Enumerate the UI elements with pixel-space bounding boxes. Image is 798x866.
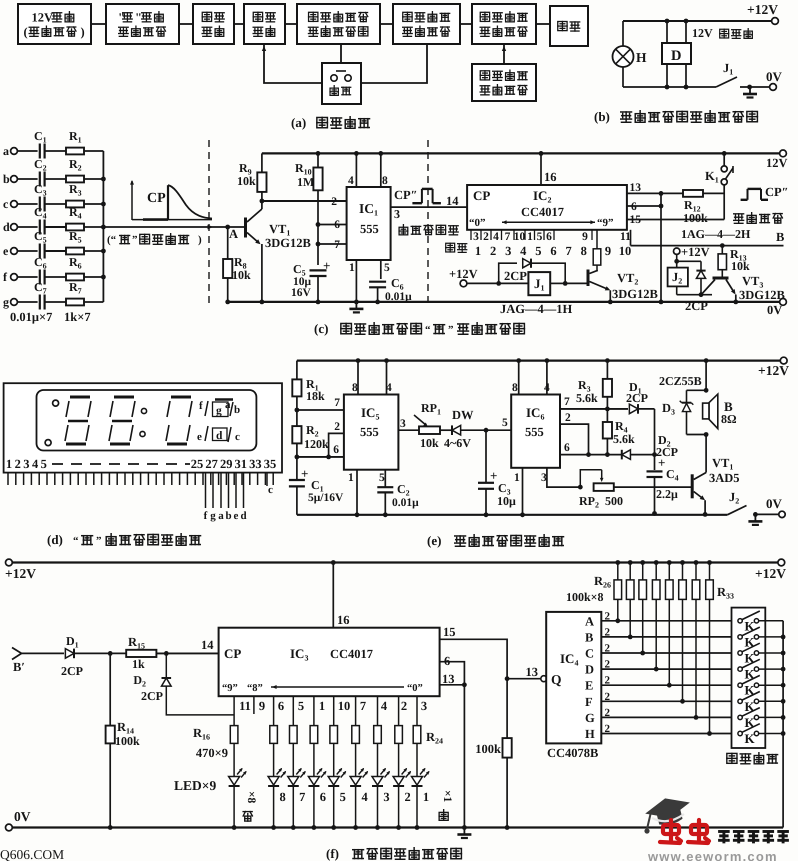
svg-text:4: 4 bbox=[348, 175, 354, 187]
svg-text:7: 7 bbox=[564, 396, 570, 408]
svg-text:7: 7 bbox=[299, 790, 305, 804]
wire IC2 pin16 to rail bbox=[540, 153, 542, 185]
svg-text:B: B bbox=[585, 630, 593, 644]
svg-text:5.6k: 5.6k bbox=[613, 432, 635, 446]
logo eeworm graduation cap bbox=[643, 793, 694, 830]
svg-text:1: 1 bbox=[423, 790, 429, 804]
svg-text:2: 2 bbox=[565, 412, 571, 424]
label green x1 vertical bbox=[441, 790, 453, 803]
resistor R4 5.6k bbox=[606, 409, 608, 422]
svg-text:3: 3 bbox=[23, 457, 29, 471]
bus node (c inputs) bbox=[102, 151, 104, 302]
capacitor C5 bbox=[310, 269, 327, 271]
svg-text:12V: 12V bbox=[692, 26, 713, 40]
svg-text:100k: 100k bbox=[683, 211, 708, 225]
svg-text:2: 2 bbox=[605, 626, 611, 638]
svg-text:(c): (c) bbox=[314, 321, 328, 336]
wire IC2 pin6 bbox=[627, 205, 661, 207]
svg-text:3: 3 bbox=[421, 699, 427, 713]
svg-text:6: 6 bbox=[564, 442, 570, 454]
wire pin6 IC1 bbox=[318, 224, 347, 226]
display pin comb bbox=[7, 473, 9, 485]
block clear-zero switch bbox=[322, 63, 361, 104]
svg-text:2: 2 bbox=[490, 244, 496, 258]
block counting circuit bbox=[244, 4, 285, 44]
resistor 100k pulldown bbox=[506, 679, 508, 738]
svg-text:×1: ×1 bbox=[441, 790, 453, 803]
svg-text:a: a bbox=[225, 399, 231, 411]
digit 2 bbox=[114, 396, 134, 399]
svg-text:9: 9 bbox=[259, 699, 265, 713]
svg-text:10k: 10k bbox=[232, 268, 251, 282]
svg-text:5: 5 bbox=[384, 262, 390, 274]
resistor VT2 base bbox=[596, 230, 598, 249]
svg-text:(d): (d) bbox=[47, 532, 63, 547]
op IC2 CC4017 counter bbox=[467, 185, 627, 230]
svg-text:4: 4 bbox=[381, 699, 388, 713]
0V rail (c) bbox=[227, 301, 783, 303]
wire IC5 pin3 out bbox=[398, 429, 419, 431]
svg-text:0V: 0V bbox=[766, 496, 783, 511]
wire diode junction vertical bbox=[654, 409, 656, 470]
block 12V power supply bbox=[18, 4, 91, 44]
svg-text:H: H bbox=[585, 727, 595, 741]
relay J2 (c) with +12V bbox=[674, 248, 680, 254]
svg-text:+: + bbox=[323, 258, 330, 273]
svg-text:4: 4 bbox=[493, 231, 499, 243]
wire clear to wake bbox=[361, 44, 427, 83]
IC2 bottom pin labels bbox=[470, 230, 472, 240]
resistor R14 100k bbox=[109, 653, 111, 725]
svg-text:3AD5: 3AD5 bbox=[709, 471, 740, 485]
svg-text:CP: CP bbox=[224, 646, 241, 661]
svg-text:+: + bbox=[490, 468, 497, 483]
svg-text:5: 5 bbox=[535, 244, 541, 258]
svg-text:CC4017: CC4017 bbox=[330, 647, 373, 661]
svg-text:16V: 16V bbox=[291, 287, 312, 299]
svg-text:2: 2 bbox=[15, 457, 21, 471]
svg-text:6: 6 bbox=[631, 201, 637, 213]
display long pins fgabed bbox=[205, 473, 207, 508]
svg-text:10k: 10k bbox=[420, 436, 439, 450]
svg-text:4: 4 bbox=[386, 382, 392, 394]
svg-text:100k: 100k bbox=[475, 742, 501, 756]
IC3 bottom pin stubs and labels bbox=[253, 696, 255, 714]
svg-text:120k: 120k bbox=[304, 437, 329, 451]
svg-text:+12V: +12V bbox=[758, 363, 789, 378]
CP waveform graph bbox=[131, 181, 133, 220]
wire pin7 IC1 bbox=[318, 243, 347, 245]
svg-text:2: 2 bbox=[401, 699, 407, 713]
svg-text:2CP: 2CP bbox=[61, 664, 83, 678]
svg-text:2CZ55B: 2CZ55B bbox=[659, 374, 702, 388]
svg-text:2: 2 bbox=[605, 643, 611, 655]
svg-text:H: H bbox=[636, 50, 647, 65]
wire pin2 IC1 bbox=[262, 200, 347, 202]
svg-text:”: ” bbox=[132, 234, 138, 246]
svg-text:31: 31 bbox=[235, 457, 248, 471]
svg-text:7: 7 bbox=[334, 239, 340, 251]
svg-text:555: 555 bbox=[360, 425, 379, 439]
resistor bank R26-R33 100k x8 bbox=[615, 560, 620, 565]
svg-text:(f): (f) bbox=[326, 846, 339, 861]
transistor VT1 3DG12B bbox=[228, 226, 245, 228]
wire IC5 pin8 pin4 to rail bbox=[357, 361, 359, 395]
svg-text:0V: 0V bbox=[14, 809, 31, 824]
capacitor C6 bbox=[380, 260, 382, 279]
block minute-signal detect bbox=[106, 4, 179, 44]
svg-text:7: 7 bbox=[565, 244, 571, 258]
colon bbox=[141, 408, 146, 413]
svg-text:Q606.COM: Q606.COM bbox=[0, 847, 64, 861]
svg-text:CP: CP bbox=[147, 191, 166, 206]
svg-text:“9”: “9” bbox=[597, 217, 614, 229]
IC2 minute labels bbox=[446, 243, 455, 252]
op IC3 CC4017 counter bbox=[219, 628, 440, 697]
svg-text:27: 27 bbox=[205, 457, 218, 471]
svg-text:14: 14 bbox=[446, 194, 459, 208]
svg-text:2: 2 bbox=[605, 659, 611, 671]
svg-text:15: 15 bbox=[443, 625, 456, 639]
resistor R9 bbox=[261, 153, 263, 172]
label CP recording pulse bbox=[741, 199, 748, 201]
svg-text:4: 4 bbox=[32, 457, 39, 471]
svg-text:+12V: +12V bbox=[5, 566, 36, 581]
svg-text:“0”: “0” bbox=[407, 683, 423, 694]
svg-text:CP″: CP″ bbox=[394, 188, 418, 202]
wire to IC6 pin5 bbox=[484, 428, 489, 433]
svg-text:d: d bbox=[3, 220, 10, 234]
svg-text:2CP: 2CP bbox=[626, 391, 648, 405]
svg-text:2: 2 bbox=[605, 723, 611, 735]
svg-text:500: 500 bbox=[605, 494, 623, 508]
svg-text:555: 555 bbox=[525, 425, 544, 439]
resistor R1 18k bbox=[292, 379, 301, 396]
svg-text:0.01μ: 0.01μ bbox=[392, 497, 419, 509]
svg-text:1M: 1M bbox=[297, 175, 314, 189]
svg-text:+12V: +12V bbox=[449, 267, 478, 281]
svg-text:f: f bbox=[204, 510, 208, 522]
svg-text:3: 3 bbox=[541, 472, 547, 484]
svg-text:13: 13 bbox=[526, 665, 539, 679]
svg-text:100k×8: 100k×8 bbox=[566, 590, 604, 604]
svg-text:d: d bbox=[240, 510, 246, 522]
digit 3 bbox=[171, 396, 191, 399]
ground (b) bbox=[749, 87, 751, 94]
wire IC5 pin2-6 bracket bbox=[329, 433, 344, 457]
svg-text:5: 5 bbox=[41, 457, 47, 471]
svg-text:”: ” bbox=[448, 324, 454, 336]
svg-text:c: c bbox=[3, 197, 9, 211]
block doze-count record bbox=[472, 4, 536, 44]
wire vertical pin6-13 to 0V bbox=[660, 193, 662, 302]
svg-text:×8: ×8 bbox=[245, 791, 257, 804]
svg-text:K: K bbox=[745, 731, 756, 746]
diode D1 2CP (f) bbox=[65, 649, 74, 659]
svg-text:“: “ bbox=[425, 324, 431, 336]
svg-text:1: 1 bbox=[6, 457, 12, 471]
svg-text:8: 8 bbox=[512, 382, 518, 394]
svg-text:29: 29 bbox=[220, 457, 233, 471]
svg-text:www.eeworm.com: www.eeworm.com bbox=[647, 849, 778, 861]
+12V rail (b) bbox=[623, 20, 775, 22]
svg-text:2CP: 2CP bbox=[685, 299, 708, 313]
svg-text:1: 1 bbox=[348, 472, 354, 484]
svg-text:“9”: “9” bbox=[222, 683, 238, 694]
wire IC1 pin4 pin8 to rail bbox=[355, 153, 357, 187]
svg-text:13: 13 bbox=[630, 182, 642, 194]
svg-text:9: 9 bbox=[582, 231, 588, 243]
op IC6 555 timer bbox=[511, 395, 560, 468]
display module outer box bbox=[4, 383, 282, 472]
right bus to 0V bbox=[782, 621, 784, 828]
0V rail (f) bbox=[9, 826, 783, 828]
switch J1 bbox=[716, 77, 737, 87]
svg-text:33: 33 bbox=[249, 457, 262, 471]
svg-text:C: C bbox=[585, 647, 594, 661]
switch J2 (e) bbox=[727, 506, 746, 515]
capacitor C2 0.01u bbox=[384, 470, 386, 487]
svg-text:12V: 12V bbox=[766, 156, 788, 170]
svg-text:6: 6 bbox=[320, 790, 326, 804]
svg-text:3DG12B: 3DG12B bbox=[265, 236, 311, 250]
wire IC6 pin2 bracket bbox=[560, 424, 589, 455]
svg-text:a: a bbox=[3, 144, 9, 158]
svg-text:CP″: CP″ bbox=[765, 185, 789, 199]
+12V rail (c) bbox=[262, 152, 783, 154]
svg-text:f: f bbox=[199, 400, 203, 412]
display pin c bbox=[266, 473, 268, 486]
wire IC3 pin13 bbox=[440, 684, 465, 686]
wire IC6 pin1 to 0V bbox=[522, 468, 524, 515]
resistor R12 bbox=[683, 190, 703, 197]
digit 1 bbox=[70, 396, 90, 399]
svg-text:3: 3 bbox=[394, 207, 400, 221]
svg-text:4: 4 bbox=[544, 382, 550, 394]
svg-text:1: 1 bbox=[475, 244, 481, 258]
block display bbox=[550, 6, 588, 46]
svg-text:“0”: “0” bbox=[469, 217, 486, 229]
svg-text:6: 6 bbox=[444, 654, 450, 668]
block preset-time notify bbox=[297, 4, 380, 44]
svg-text:): ) bbox=[81, 25, 85, 39]
wire IC2 pin13 bbox=[627, 192, 683, 194]
svg-text:(b): (b) bbox=[594, 109, 610, 124]
svg-text:B: B bbox=[776, 230, 784, 244]
svg-text:2: 2 bbox=[404, 790, 410, 804]
node A bbox=[225, 225, 230, 230]
svg-text:470×9: 470×9 bbox=[196, 746, 228, 760]
svg-text:b: b bbox=[3, 172, 10, 186]
svg-text:2: 2 bbox=[334, 421, 340, 433]
svg-text:(: ( bbox=[24, 25, 28, 39]
svg-text:“: “ bbox=[73, 535, 79, 547]
svg-text:9: 9 bbox=[605, 244, 611, 258]
node B wire bbox=[630, 230, 632, 246]
svg-text:F: F bbox=[585, 695, 593, 709]
diode 2CP across J1 bbox=[499, 263, 517, 283]
wire IC6 pin7 bbox=[560, 408, 628, 410]
svg-text:g: g bbox=[210, 510, 216, 522]
svg-text:0V: 0V bbox=[766, 69, 783, 84]
svg-text:10k: 10k bbox=[237, 174, 256, 188]
svg-text:6: 6 bbox=[278, 699, 284, 713]
svg-text:“8”: “8” bbox=[247, 683, 263, 694]
svg-text:CC4017: CC4017 bbox=[521, 205, 564, 219]
svg-text:0V: 0V bbox=[767, 303, 782, 317]
svg-text:16: 16 bbox=[544, 170, 557, 184]
lamp H bbox=[622, 21, 624, 46]
svg-text:11: 11 bbox=[620, 231, 631, 243]
wire main signal d-row to node A bbox=[103, 226, 227, 228]
wire clear to preset bbox=[340, 44, 342, 63]
diode 2CP across J2 bbox=[700, 261, 702, 270]
relay J1 JAG-4-1H bbox=[528, 272, 550, 295]
ground (e) bbox=[754, 514, 756, 521]
svg-text:10: 10 bbox=[338, 699, 351, 713]
svg-text:1: 1 bbox=[514, 472, 520, 484]
svg-text:13: 13 bbox=[442, 672, 455, 686]
svg-text:1: 1 bbox=[349, 262, 355, 274]
svg-text:10: 10 bbox=[514, 231, 526, 243]
svg-text:c: c bbox=[268, 484, 273, 496]
svg-text:3: 3 bbox=[383, 790, 389, 804]
LED row x9 bbox=[229, 777, 240, 786]
svg-text:+12V: +12V bbox=[681, 245, 710, 259]
svg-text:2: 2 bbox=[605, 675, 611, 687]
transistor VT2 3DG12B bbox=[587, 270, 590, 287]
svg-text:7: 7 bbox=[360, 699, 366, 713]
wire counting to clear bbox=[264, 44, 322, 83]
svg-text:c: c bbox=[235, 431, 240, 443]
display inner window bbox=[37, 390, 257, 451]
wire IC5 pin1 to 0V bbox=[356, 470, 358, 515]
svg-text:e: e bbox=[197, 431, 202, 443]
svg-text:+12V: +12V bbox=[747, 2, 778, 17]
wire password to record bbox=[503, 44, 505, 64]
svg-text:5: 5 bbox=[502, 417, 508, 429]
resistor R15 1k bbox=[126, 650, 156, 657]
op IC4 CC4078B gate bbox=[541, 676, 547, 682]
svg-text:3DG12B: 3DG12B bbox=[612, 287, 658, 301]
wire block links bbox=[91, 23, 106, 25]
svg-text:5: 5 bbox=[340, 790, 346, 804]
svg-text:d: d bbox=[216, 430, 223, 442]
input B-prime bbox=[12, 648, 22, 654]
svg-text:2: 2 bbox=[483, 231, 489, 243]
svg-text:10k: 10k bbox=[731, 259, 750, 273]
svg-text:": " bbox=[135, 11, 142, 25]
svg-text:8Ω: 8Ω bbox=[721, 412, 737, 426]
wire IC6 pin6 bbox=[560, 454, 622, 456]
svg-text:6: 6 bbox=[546, 231, 552, 243]
svg-text:555: 555 bbox=[360, 222, 379, 236]
svg-text:4: 4 bbox=[520, 244, 527, 258]
block loud-sound wake bbox=[393, 4, 460, 44]
svg-text:8: 8 bbox=[279, 790, 285, 804]
svg-text:6: 6 bbox=[550, 244, 556, 258]
svg-text:3: 3 bbox=[505, 244, 511, 258]
svg-text:0.01μ×7: 0.01μ×7 bbox=[10, 310, 52, 324]
capacitor C3 10u bbox=[485, 430, 487, 482]
svg-text:2: 2 bbox=[605, 707, 611, 719]
resistor R2 120k bbox=[292, 426, 301, 443]
wire IC2 pin15 bbox=[627, 219, 724, 221]
svg-text:2: 2 bbox=[331, 196, 337, 208]
+12V rail (e) bbox=[297, 360, 784, 362]
svg-text:1: 1 bbox=[527, 231, 533, 243]
resistor R8 bbox=[227, 227, 229, 259]
resistor ladder R16..R24 470x9 bbox=[233, 696, 235, 725]
svg-text:1k×7: 1k×7 bbox=[64, 310, 91, 324]
op IC1 555 timer bbox=[347, 187, 391, 260]
buzzer D 12V sounder bbox=[662, 43, 691, 64]
svg-text:35: 35 bbox=[264, 457, 277, 471]
svg-text:10μ: 10μ bbox=[497, 494, 516, 508]
svg-text:6: 6 bbox=[334, 219, 340, 231]
resistor R3 5.6k bbox=[605, 358, 610, 363]
svg-text:”: ” bbox=[96, 535, 102, 547]
wire IC5 pin7 bbox=[297, 409, 344, 411]
svg-text:g: g bbox=[3, 295, 9, 309]
svg-text:4: 4 bbox=[361, 790, 368, 804]
wire IC1 pin3 to IC2 pin14 bbox=[391, 206, 468, 208]
svg-text:E: E bbox=[585, 679, 593, 693]
0V rail (e) bbox=[297, 514, 727, 516]
op IC5 555 timer bbox=[344, 395, 399, 470]
dashed boundary left bbox=[208, 140, 210, 307]
diode D2 2CP (f) bbox=[165, 653, 167, 678]
logo dianzi xiazaizhan text bbox=[718, 831, 789, 843]
resistor R10 bbox=[317, 153, 319, 167]
block clear-record password bbox=[472, 64, 536, 101]
potentiometer RP1 10k bbox=[419, 426, 440, 434]
svg-text:5: 5 bbox=[379, 472, 385, 484]
svg-text:12V: 12V bbox=[32, 11, 54, 25]
svg-text:8: 8 bbox=[352, 382, 358, 394]
svg-text:3DG12B: 3DG12B bbox=[739, 288, 785, 302]
wire Q line bbox=[505, 676, 510, 681]
wire bottom (b) bbox=[623, 86, 716, 88]
diode D1 2CP (e) bbox=[629, 404, 638, 414]
svg-text:5: 5 bbox=[537, 231, 543, 243]
wire IC3 pin16 to rail bbox=[332, 563, 334, 628]
left branch R1 R2 C1 bbox=[296, 361, 298, 380]
block shaping circuit bbox=[193, 4, 234, 44]
svg-text:+: + bbox=[658, 455, 665, 470]
svg-text:1k: 1k bbox=[132, 657, 145, 671]
svg-text:16: 16 bbox=[337, 613, 350, 627]
svg-text:CC4078B: CC4078B bbox=[547, 746, 598, 760]
speaker B 8ohm with zener D3 2CZ55B bbox=[705, 361, 707, 391]
svg-text:5μ/16V: 5μ/16V bbox=[308, 492, 344, 504]
svg-text:A: A bbox=[585, 614, 594, 628]
svg-text:LED×9: LED×9 bbox=[174, 778, 216, 793]
svg-text:b: b bbox=[225, 510, 231, 522]
svg-text:B′: B′ bbox=[13, 660, 25, 674]
svg-text:100k: 100k bbox=[115, 734, 140, 748]
svg-text:5.6k: 5.6k bbox=[576, 391, 598, 405]
svg-text:6: 6 bbox=[333, 444, 339, 456]
svg-text:2CP: 2CP bbox=[504, 269, 527, 283]
svg-text:3: 3 bbox=[400, 418, 406, 430]
svg-text:A: A bbox=[229, 227, 238, 241]
svg-text:+: + bbox=[301, 466, 308, 481]
svg-text:2: 2 bbox=[605, 691, 611, 703]
transistor VT1 3AD5 bbox=[691, 474, 694, 498]
svg-text:JAG—4—1H: JAG—4—1H bbox=[500, 302, 573, 316]
svg-text:Q: Q bbox=[551, 672, 562, 687]
